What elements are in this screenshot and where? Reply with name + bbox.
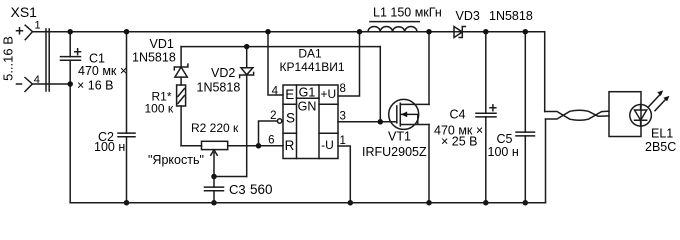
node C1 bottom (67, 81, 73, 87)
transistor VT1 (362, 99, 429, 159)
resistor R2 (potentiometer) (181, 121, 283, 177)
svg-text:EL1: EL1 (651, 127, 673, 141)
wire left branch down (69, 84, 71, 203)
svg-text:VT1: VT1 (388, 130, 411, 144)
svg-text:КР1441ВИ1: КР1441ВИ1 (280, 60, 345, 74)
node C2 bottom (124, 200, 130, 206)
svg-text:1N5818: 1N5818 (132, 51, 176, 65)
wire VD1/VD2 cathode to output node (181, 46, 380, 48)
svg-text:× 25 В: × 25 В (441, 135, 478, 149)
svg-text:8: 8 (340, 83, 346, 95)
twisted pair bottom wire (546, 110, 610, 119)
polarity plus (17, 28, 23, 34)
wire bottom rail (70, 202, 545, 204)
svg-text:C5: C5 (497, 132, 513, 146)
capacitor C1 (61, 32, 128, 93)
node S/R junction (256, 143, 262, 149)
capacitor C5 (488, 32, 535, 203)
svg-text:6: 6 (268, 135, 274, 147)
twisted pair top wire (545, 111, 609, 120)
pin 8 wire (338, 32, 360, 96)
node wiper junction (211, 174, 217, 180)
svg-text:2: 2 (270, 110, 276, 122)
pin 2 label and inversion circle (277, 119, 281, 123)
wire top rail (33, 31, 545, 33)
wire source to bottom rail (428, 125, 430, 203)
svg-text:+U: +U (321, 87, 337, 101)
pin 4 wire (268, 32, 283, 95)
svg-text:2В5С: 2В5С (645, 140, 676, 154)
diode VD1 (132, 37, 188, 85)
capacitor C4 (434, 32, 496, 203)
svg-text:C3: C3 (229, 182, 246, 197)
svg-text:4: 4 (272, 86, 279, 98)
node C3 bottom (211, 200, 217, 206)
svg-text:XS1: XS1 (11, 4, 38, 20)
svg-text:100 н: 100 н (94, 140, 125, 154)
svg-text:GN: GN (298, 99, 317, 113)
svg-text:× 16 В: × 16 В (77, 79, 114, 93)
svg-text:VD1: VD1 (150, 37, 174, 51)
svg-text:1: 1 (35, 20, 41, 32)
pin 3 wire to gate (338, 121, 397, 123)
pin 1 wire (338, 146, 350, 203)
diode VD3 (454, 9, 533, 38)
svg-text:1N5818: 1N5818 (489, 9, 533, 23)
lamp EL1 (609, 90, 676, 154)
resistor R1 (145, 85, 186, 146)
wire pin2 S branch (259, 121, 278, 146)
svg-text:IRFU2905Z: IRFU2905Z (362, 145, 427, 159)
svg-text:C4: C4 (450, 108, 466, 122)
capacitor C2 (94, 32, 135, 203)
inductor L1 (368, 6, 442, 32)
svg-text:100 н: 100 н (488, 145, 519, 159)
IC DA1 box (283, 85, 338, 159)
wire output bottom corner (545, 119, 547, 203)
svg-text:-U: -U (321, 138, 334, 152)
svg-text:R2 220 к: R2 220 к (191, 121, 239, 135)
svg-text:470 мк ×: 470 мк × (78, 64, 127, 78)
polarity minus (17, 83, 22, 85)
svg-text:560: 560 (250, 182, 273, 197)
wire VD2 anode to wiper node (214, 176, 247, 178)
svg-text:5...16 В: 5...16 В (0, 36, 15, 81)
wire drain to rail (428, 32, 430, 105)
svg-text:1: 1 (340, 135, 346, 147)
svg-text:G1: G1 (299, 86, 316, 100)
svg-text:VD3: VD3 (456, 9, 480, 23)
svg-text:DA1: DA1 (298, 47, 322, 61)
wire output node vertical (379, 47, 381, 122)
wire XS1 minus lead (32, 83, 70, 85)
diode VD2 (197, 47, 254, 177)
svg-text:E: E (285, 87, 294, 102)
svg-text:100 к: 100 к (145, 102, 174, 116)
node C1 top (67, 29, 73, 35)
node C2 top (124, 29, 130, 35)
capacitor C3 (205, 177, 273, 203)
connector XS1 pin 1 (25, 20, 40, 40)
node VD2 top (244, 44, 250, 50)
svg-text:R: R (285, 138, 295, 153)
svg-text:L1 150 мкГн: L1 150 мкГн (373, 6, 442, 20)
svg-text:VD2: VD2 (211, 66, 235, 80)
connector XS1 pin 4 (25, 74, 40, 92)
wire output top corner (544, 32, 546, 112)
connector mating lines (46, 29, 49, 91)
svg-text:S: S (286, 111, 295, 126)
svg-text:1N5818: 1N5818 (197, 81, 241, 95)
svg-text:3: 3 (340, 111, 346, 123)
svg-text:"Яркость": "Яркость" (148, 153, 204, 167)
